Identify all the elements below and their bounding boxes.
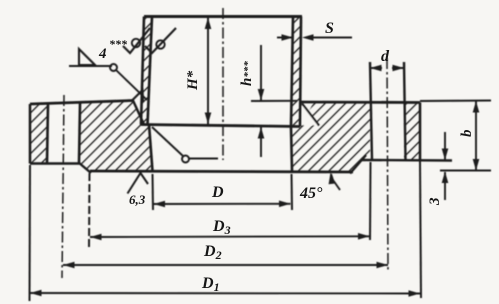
svg-text:S: S <box>325 20 334 37</box>
hatch fill right mid block <box>291 102 370 172</box>
dimension D2 <box>63 264 388 266</box>
weld leader top <box>69 65 112 67</box>
svg-text:h***: h*** <box>239 61 255 86</box>
svg-text:3: 3 <box>427 197 443 206</box>
bolt hole right edge2 <box>404 62 406 160</box>
bore left edge <box>149 125 153 172</box>
dimension h*** upper <box>260 45 262 101</box>
svg-text:6,3: 6,3 <box>129 192 146 207</box>
dimension S arrows <box>277 37 352 39</box>
bolt hole left edge2 <box>79 104 80 164</box>
dimension D3 <box>90 235 370 238</box>
weld groove notch right <box>303 105 319 125</box>
centerline right bolt hole <box>387 58 388 271</box>
D1 extension right <box>420 161 421 298</box>
pipe left wall inner <box>148 17 153 125</box>
weld bevel right <box>302 104 319 126</box>
flange right edge <box>419 103 422 161</box>
D extension right <box>291 174 294 210</box>
svg-text:H*: H* <box>185 70 201 91</box>
pipe right wall inner <box>291 17 293 127</box>
chamfer bottom right <box>350 155 366 174</box>
hatch fill pipe right wall <box>291 17 301 127</box>
dimension H* line <box>207 18 209 125</box>
bolt hole right edge1 <box>370 62 372 160</box>
pipe top edge <box>144 15 302 18</box>
flange top face right <box>301 101 420 104</box>
dimension b <box>420 100 491 103</box>
bolt hole left edge1 <box>47 104 48 164</box>
svg-text:45°: 45° <box>299 185 323 202</box>
flange bottom raised face <box>90 171 353 172</box>
D3 extension left <box>88 173 91 248</box>
weld cap left <box>131 90 143 102</box>
flange left edge <box>29 104 32 164</box>
pipe end shoulder line <box>141 125 300 127</box>
roughness check 2 <box>145 28 176 53</box>
svg-text:D: D <box>211 184 224 201</box>
hatch fill left mid block <box>80 101 151 172</box>
centerline left bolt hole <box>62 95 64 278</box>
flange bottom left ring <box>30 162 80 165</box>
hatch fill left ring <box>30 104 48 164</box>
weld leader lower <box>152 127 183 156</box>
D3 extension right <box>369 162 372 240</box>
pipe left wall outer <box>141 17 144 125</box>
6,3 caret <box>128 173 149 194</box>
svg-text:d: d <box>381 48 390 65</box>
centerline pipe axis <box>222 8 224 160</box>
svg-text:***: *** <box>109 37 128 51</box>
bore right edge <box>291 127 292 172</box>
roughness check 1 <box>123 28 150 53</box>
hatch fill pipe left wall <box>141 17 152 125</box>
weld flag <box>79 49 95 65</box>
dimension D1 <box>30 292 420 295</box>
dimension D <box>154 203 291 205</box>
chamfer bottom left <box>78 162 91 173</box>
D1 extension left <box>29 165 32 301</box>
svg-text:b: b <box>459 129 475 137</box>
pipe right wall outer <box>300 17 301 127</box>
dimension h*** lower <box>260 127 262 157</box>
svg-text:D2: D2 <box>203 243 222 262</box>
flange bottom right ring <box>361 159 452 162</box>
hatch fill right ring <box>404 103 420 161</box>
flange top face left <box>30 101 133 105</box>
weld bevel left <box>133 101 144 125</box>
h extension line <box>251 100 297 102</box>
45 leader <box>331 174 340 190</box>
svg-text:D3: D3 <box>212 218 231 237</box>
svg-text:D1: D1 <box>201 275 220 294</box>
dimension d <box>370 67 404 69</box>
dimension 3 step <box>444 132 446 160</box>
D extension left <box>152 174 155 210</box>
svg-text:4: 4 <box>98 46 107 62</box>
